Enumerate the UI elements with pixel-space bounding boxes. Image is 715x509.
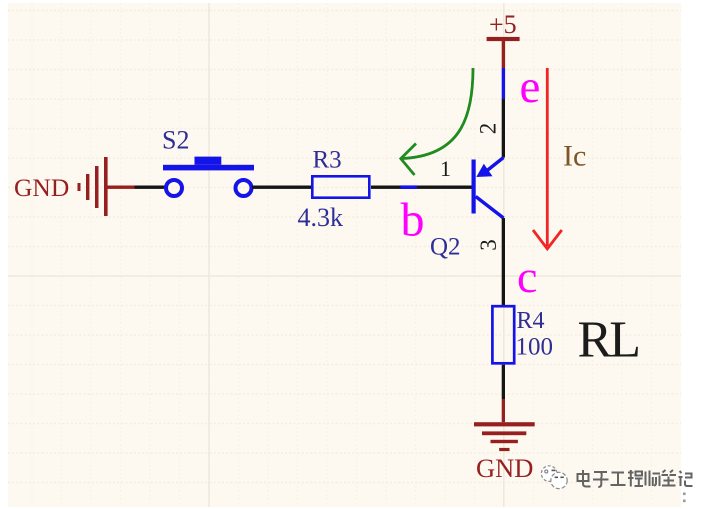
svg-text:1: 1 — [440, 156, 451, 181]
svg-text:GND: GND — [476, 453, 533, 483]
svg-text:4.3k: 4.3k — [298, 203, 344, 232]
svg-text:Q2: Q2 — [430, 234, 461, 261]
svg-text:RL: RL — [578, 312, 642, 369]
resistor R3 — [312, 176, 369, 197]
svg-text:100: 100 — [516, 334, 554, 361]
svg-text:b: b — [401, 194, 425, 247]
svg-text:2: 2 — [475, 123, 500, 135]
wire: ground stub (dark red) — [502, 399, 505, 422]
wire: ground stub (dark red) — [108, 186, 135, 189]
svg-text:S2: S2 — [162, 126, 189, 155]
power +5 — [487, 37, 520, 68]
wire: R4 to ground — [502, 365, 505, 399]
watermark text 电子工程师笔记 (vector strokes) — [578, 470, 693, 487]
watermark dots — [683, 493, 686, 503]
wire: collector to R4 — [502, 218, 505, 305]
svg-text:Ic: Ic — [563, 140, 586, 173]
记 — [679, 471, 693, 486]
svg-text:R4: R4 — [517, 308, 545, 334]
svg-text:e: e — [520, 61, 541, 113]
emitter with arrow — [487, 158, 504, 172]
ground GND (bottom) — [474, 422, 535, 451]
wire: R3 to node b — [371, 186, 401, 189]
ground GND (left) — [78, 157, 108, 216]
svg-text:3: 3 — [476, 239, 501, 251]
师 — [646, 471, 661, 487]
svg-text:c: c — [517, 251, 537, 302]
svg-text:R3: R3 — [313, 147, 342, 174]
wire: node b to base — [417, 186, 472, 189]
transistor Q2 — [430, 123, 504, 261]
svg-text:+5: +5 — [489, 10, 517, 39]
base bar — [472, 160, 476, 214]
watermark logo — [541, 466, 567, 489]
annotation: red arrow Ic — [533, 68, 562, 249]
笔 — [662, 470, 677, 486]
wire: ground to switch — [135, 186, 167, 189]
resistor R4 — [492, 306, 514, 363]
程 — [628, 470, 643, 487]
子 — [593, 472, 609, 487]
电 — [578, 470, 591, 487]
wire: blue segment at node b — [401, 185, 418, 189]
工 — [611, 473, 626, 486]
svg-text:GND: GND — [14, 173, 69, 202]
switch S2 — [166, 180, 252, 196]
wire: switch to R3 — [252, 186, 311, 189]
annotation: green arrow — [401, 68, 473, 175]
wire: blue segment below +5 — [502, 68, 505, 99]
wire: +5 to emitter — [502, 99, 505, 158]
collector — [476, 197, 504, 219]
